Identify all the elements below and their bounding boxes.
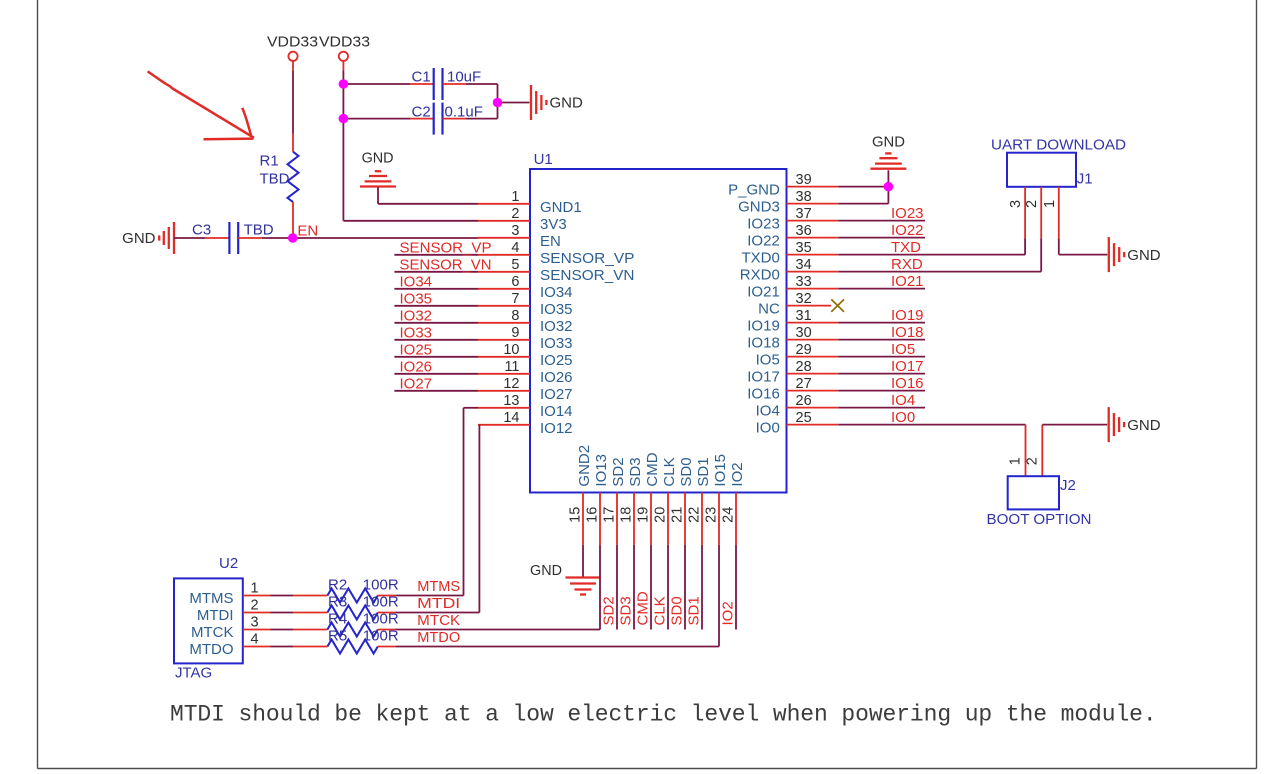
svg-text:CLK: CLK <box>661 457 678 486</box>
wire IO2 stub down <box>735 545 737 630</box>
wire C1-C2 right vertical <box>497 84 499 119</box>
svg-text:J1: J1 <box>1077 171 1093 188</box>
svg-text:GND3: GND3 <box>738 199 780 216</box>
ground GND (C1 C2) <box>531 85 546 120</box>
U1 pin 26 stub <box>787 407 839 409</box>
wire SD2 stub down <box>616 545 618 630</box>
svg-text:GND: GND <box>530 562 562 579</box>
ground symbol (pin1) <box>360 171 396 186</box>
wire IO22 row <box>838 237 925 239</box>
U1 pin 20 stub <box>667 493 669 545</box>
J1 pin 1 stub <box>1058 187 1060 239</box>
svg-text:23: 23 <box>704 507 720 523</box>
C3 pin right <box>238 237 262 239</box>
svg-text:IO23: IO23 <box>747 216 780 233</box>
svg-text:SD3: SD3 <box>627 457 644 486</box>
resistor R2 <box>327 589 377 603</box>
connector J1 body <box>1007 153 1076 187</box>
wire SD0 stub down <box>684 545 686 630</box>
U1 pin 31 stub <box>787 322 839 324</box>
wire IO16 row <box>838 390 925 392</box>
svg-text:SD1: SD1 <box>695 457 712 486</box>
wire C3 to EN junction <box>262 237 293 239</box>
svg-text:IO0: IO0 <box>891 409 915 426</box>
svg-text:17: 17 <box>602 507 618 523</box>
wire EN row <box>293 237 478 239</box>
ground symbol (P_GND) <box>870 153 906 168</box>
svg-text:IO22: IO22 <box>891 222 924 239</box>
U2 pin 2 stub <box>243 612 271 614</box>
svg-text:25: 25 <box>796 410 812 426</box>
svg-text:35: 35 <box>796 240 812 256</box>
wire SENSOR_VP row <box>394 254 478 256</box>
U1 pin 17 stub <box>616 493 618 545</box>
svg-text:EN: EN <box>540 233 561 250</box>
R1 pin top <box>292 134 294 152</box>
svg-text:SENSOR_VP: SENSOR_VP <box>400 239 492 256</box>
U2 pin 3 stub <box>243 629 271 631</box>
wire GND1 row <box>378 203 478 205</box>
U1 pin 18 stub <box>633 493 635 545</box>
svg-text:22: 22 <box>687 507 703 523</box>
svg-text:10uF: 10uF <box>447 69 481 86</box>
svg-text:MTMS: MTMS <box>189 590 233 607</box>
svg-text:3V3: 3V3 <box>540 216 567 233</box>
U2 pin 4 stub <box>243 646 271 648</box>
wire TXD row <box>838 254 1025 256</box>
svg-text:IO18: IO18 <box>891 324 924 341</box>
svg-text:IO18: IO18 <box>747 335 780 352</box>
wire U2 pin 4 to resistor <box>271 646 294 648</box>
svg-text:IO5: IO5 <box>756 352 780 369</box>
J1 pin 3 stub <box>1024 187 1026 239</box>
svg-text:TBD: TBD <box>244 222 274 239</box>
svg-text:SD1: SD1 <box>686 596 703 625</box>
svg-text:SD3: SD3 <box>618 596 635 625</box>
svg-text:IO4: IO4 <box>891 392 915 409</box>
wire IO5 row <box>838 356 925 358</box>
svg-text:IO26: IO26 <box>400 358 433 375</box>
wire P_GND row <box>838 186 888 188</box>
wire IO32 row <box>394 322 478 324</box>
svg-text:SENSOR_VP: SENSOR_VP <box>540 250 635 267</box>
svg-text:MTDO: MTDO <box>417 629 460 646</box>
wire GND2 to ground <box>582 545 584 577</box>
capacitor C2 <box>434 103 443 135</box>
svg-text:C1: C1 <box>412 69 431 86</box>
wire IO0 row <box>838 424 1025 426</box>
wire J1 pin3 to TXD <box>1024 239 1026 255</box>
svg-text:MTDI should be kept at a low e: MTDI should be kept at a low electric le… <box>170 702 1157 728</box>
U1 pin 38 stub <box>787 203 839 205</box>
svg-text:IO27: IO27 <box>400 375 433 392</box>
IC U1 body <box>530 169 787 493</box>
svg-text:R1: R1 <box>260 153 279 170</box>
svg-text:12: 12 <box>503 376 519 392</box>
svg-text:U2: U2 <box>219 555 238 572</box>
svg-text:1: 1 <box>251 581 259 597</box>
R2 pin left <box>293 595 327 597</box>
svg-text:3: 3 <box>1008 200 1024 208</box>
wire J1 pin1 down <box>1058 239 1060 255</box>
svg-text:MTCK: MTCK <box>417 612 460 629</box>
svg-text:SD0: SD0 <box>678 457 695 486</box>
U1 pin 36 stub <box>787 237 839 239</box>
wire CMD stub down <box>650 545 652 630</box>
svg-text:IO16: IO16 <box>891 375 924 392</box>
R4 pin right <box>378 629 396 631</box>
wire J1 pin1 to GND <box>1059 254 1108 256</box>
svg-text:NC: NC <box>758 301 780 318</box>
wire IO35 row <box>394 305 478 307</box>
svg-text:VDD33: VDD33 <box>267 34 318 51</box>
svg-text:30: 30 <box>796 325 812 341</box>
svg-text:R3: R3 <box>328 594 347 611</box>
U1 pin 22 stub <box>701 493 703 545</box>
svg-text:28: 28 <box>796 359 812 375</box>
svg-text:IO17: IO17 <box>747 369 780 386</box>
svg-text:IO33: IO33 <box>540 335 573 352</box>
svg-text:MTMS: MTMS <box>417 578 460 595</box>
svg-text:IO34: IO34 <box>540 284 573 301</box>
ground symbol (pin15) <box>566 578 601 595</box>
svg-text:IO5: IO5 <box>891 341 915 358</box>
U1 pin 9 stub <box>478 339 530 341</box>
svg-text:IO33: IO33 <box>400 324 433 341</box>
wire RXD row <box>838 271 1041 273</box>
svg-text:UART DOWNLOAD: UART DOWNLOAD <box>991 137 1126 154</box>
no-connect cross pin 32 <box>831 299 844 311</box>
svg-text:GND2: GND2 <box>576 445 593 487</box>
svg-text:MTDI: MTDI <box>417 595 460 612</box>
svg-text:19: 19 <box>636 507 652 523</box>
U1 pin 19 stub <box>650 493 652 545</box>
connector U2 body <box>174 578 243 663</box>
svg-text:GND1: GND1 <box>540 199 582 216</box>
wire IO13 down <box>599 545 601 630</box>
U1 pin 15 stub <box>582 493 584 545</box>
U1 pin 16 stub <box>599 493 601 545</box>
junction C2 <box>339 114 349 124</box>
C3 pin left <box>205 237 229 239</box>
R3 pin right <box>378 612 396 614</box>
svg-text:IO25: IO25 <box>400 341 433 358</box>
junction P_GND <box>884 182 894 192</box>
wire IO15 down <box>718 545 720 647</box>
svg-text:EN: EN <box>297 223 318 240</box>
svg-text:21: 21 <box>670 507 686 523</box>
wire to C2 <box>344 118 410 120</box>
svg-text:C2: C2 <box>412 104 431 121</box>
wire IO34 row <box>394 288 478 290</box>
wire J1 pin2 to RXD <box>1040 239 1042 272</box>
svg-text:8: 8 <box>511 308 519 324</box>
wire SD3 stub down <box>633 545 635 630</box>
junction EN <box>288 233 298 243</box>
svg-text:GND: GND <box>550 95 584 112</box>
wire IO33 row <box>394 339 478 341</box>
svg-text:10: 10 <box>503 342 519 358</box>
svg-text:SENSOR_VN: SENSOR_VN <box>400 256 492 273</box>
wire MTCK row to IO13 <box>396 629 600 631</box>
svg-text:TXD: TXD <box>891 239 921 256</box>
svg-text:1: 1 <box>1042 200 1058 208</box>
U1 pin 1 stub <box>478 203 530 205</box>
U1 pin 24 stub <box>735 493 737 545</box>
svg-text:GND: GND <box>1127 247 1161 264</box>
svg-text:16: 16 <box>585 507 601 523</box>
wire IO23 row <box>838 220 925 222</box>
svg-text:26: 26 <box>796 393 812 409</box>
svg-text:BOOT OPTION: BOOT OPTION <box>987 511 1092 528</box>
svg-text:VDD33: VDD33 <box>319 34 370 51</box>
svg-text:IO12: IO12 <box>540 420 573 437</box>
U1 pin 33 stub <box>787 288 839 290</box>
wire J2 pin2 to GND <box>1042 424 1107 426</box>
wire IO26 row <box>394 373 478 375</box>
wire C2 to corner <box>466 118 498 120</box>
R2 pin right <box>378 595 396 597</box>
svg-text:IO0: IO0 <box>756 420 780 437</box>
U1 pin 30 stub <box>787 339 839 341</box>
wire VDD33 to R1 <box>292 70 294 133</box>
svg-text:24: 24 <box>721 507 737 523</box>
svg-text:MTDI: MTDI <box>197 607 234 624</box>
svg-text:29: 29 <box>796 342 812 358</box>
wire MTDI vertical <box>478 425 480 613</box>
wire 3V3 horizontal <box>343 220 478 222</box>
svg-text:5: 5 <box>511 257 519 273</box>
U1 pin 11 stub <box>478 373 530 375</box>
wire C1 to corner <box>466 83 498 85</box>
annotation arrow <box>148 71 254 139</box>
svg-text:4: 4 <box>251 632 259 648</box>
svg-text:IO17: IO17 <box>891 358 924 375</box>
svg-text:20: 20 <box>653 507 669 523</box>
C2 pin right <box>443 118 467 120</box>
U1 pin 23 stub <box>718 493 720 545</box>
svg-text:14: 14 <box>503 410 519 426</box>
wire VDD33 to 3V3 row <box>342 70 344 221</box>
svg-text:CMD: CMD <box>644 452 661 486</box>
U1 pin 12 stub <box>478 390 530 392</box>
wire U2 pin 2 to resistor <box>271 612 294 614</box>
svg-text:100R: 100R <box>363 577 399 594</box>
wire GND down to P_GND <box>887 170 889 186</box>
U1 pin 27 stub <box>787 390 839 392</box>
wire MTDO row to IO15 <box>396 646 719 648</box>
svg-text:IO16: IO16 <box>747 386 780 403</box>
svg-text:C3: C3 <box>192 222 211 239</box>
svg-text:CMD: CMD <box>635 591 652 625</box>
resistor R3 <box>327 606 377 620</box>
U1 pin 8 stub <box>478 322 530 324</box>
capacitor C1 <box>434 68 443 100</box>
svg-text:GND: GND <box>872 134 905 151</box>
svg-text:IO27: IO27 <box>540 386 573 403</box>
wire MTMS row <box>396 595 464 597</box>
svg-text:IO35: IO35 <box>400 290 433 307</box>
wire GND down <box>377 187 379 204</box>
junction C1 <box>339 79 349 89</box>
ground GND (J2) <box>1109 407 1124 442</box>
U1 pin 37 stub <box>787 220 839 222</box>
svg-text:GND: GND <box>122 230 156 247</box>
wire U2 pin 3 to resistor <box>271 629 294 631</box>
svg-text:1: 1 <box>511 189 519 205</box>
svg-text:15: 15 <box>568 507 584 523</box>
U1 pin 6 stub <box>478 288 530 290</box>
svg-text:38: 38 <box>796 189 812 205</box>
svg-text:IO14: IO14 <box>540 403 573 420</box>
U1 pin 3 stub <box>478 237 530 239</box>
ground GND (C3) <box>159 222 174 254</box>
svg-text:IO19: IO19 <box>891 307 924 324</box>
R1 pin bottom <box>292 202 294 238</box>
svg-text:6: 6 <box>511 274 519 290</box>
wire MTMS vertical <box>463 408 465 596</box>
svg-text:2: 2 <box>1024 457 1040 465</box>
U1 pin 35 stub <box>787 254 839 256</box>
svg-text:37: 37 <box>796 206 812 222</box>
svg-text:SD2: SD2 <box>610 457 627 486</box>
wire GND to C3 <box>174 237 205 239</box>
U1 pin 2 stub <box>478 220 530 222</box>
wire to C1 <box>344 83 410 85</box>
wire U2 pin 1 to resistor <box>271 595 294 597</box>
wire MTDI row <box>396 612 480 614</box>
svg-text:IO13: IO13 <box>593 454 610 487</box>
svg-text:MTCK: MTCK <box>191 624 234 641</box>
wire IO18 row <box>838 339 925 341</box>
capacitor C3 <box>229 222 238 254</box>
wire GND3 row <box>838 203 888 205</box>
svg-text:IO4: IO4 <box>756 403 780 420</box>
svg-text:P_GND: P_GND <box>728 182 780 199</box>
wire IO17 row <box>838 373 925 375</box>
svg-text:IO22: IO22 <box>747 233 780 250</box>
U1 pin 25 stub <box>787 424 839 426</box>
svg-text:IO21: IO21 <box>747 284 780 301</box>
svg-text:3: 3 <box>251 615 259 631</box>
J2 pin 2 stub <box>1041 425 1043 477</box>
svg-text:SD0: SD0 <box>669 596 686 625</box>
wire to GND <box>498 102 530 104</box>
svg-text:3: 3 <box>511 223 519 239</box>
svg-text:2: 2 <box>1024 200 1040 208</box>
U1 pin 4 stub <box>478 254 530 256</box>
svg-text:IO21: IO21 <box>891 273 924 290</box>
U1 pin 10 stub <box>478 356 530 358</box>
U1 pin 29 stub <box>787 356 839 358</box>
svg-text:36: 36 <box>796 223 812 239</box>
U1 pin 5 stub <box>478 271 530 273</box>
wire SENSOR_VN row <box>394 271 478 273</box>
R4 pin left <box>293 629 327 631</box>
junction GND <box>493 98 503 108</box>
svg-text:IO26: IO26 <box>540 369 573 386</box>
svg-text:JTAG: JTAG <box>175 665 212 682</box>
R5 pin left <box>293 646 327 648</box>
svg-text:IO23: IO23 <box>891 205 924 222</box>
svg-text:7: 7 <box>511 291 519 307</box>
svg-text:IO32: IO32 <box>540 318 573 335</box>
svg-text:1: 1 <box>1008 457 1024 465</box>
svg-text:J2: J2 <box>1060 477 1076 494</box>
svg-text:18: 18 <box>619 507 635 523</box>
wire CLK stub down <box>667 545 669 630</box>
C1 pin left <box>410 83 434 85</box>
svg-text:IO19: IO19 <box>747 318 780 335</box>
C2 pin left <box>410 118 434 120</box>
svg-text:100R: 100R <box>363 628 399 645</box>
svg-text:39: 39 <box>796 172 812 188</box>
power symbol VDD33 circle 2 <box>339 52 348 61</box>
wire GND3 to P_GND <box>887 187 889 204</box>
U1 pin 21 stub <box>684 493 686 545</box>
wire SD1 stub down <box>701 545 703 630</box>
R3 pin left <box>293 612 327 614</box>
svg-text:TBD: TBD <box>260 171 290 188</box>
R5 pin right <box>378 646 396 648</box>
U1 pin 13 stub <box>478 407 530 409</box>
svg-text:GND: GND <box>1127 417 1161 434</box>
svg-text:IO2: IO2 <box>729 462 746 486</box>
svg-text:IO2: IO2 <box>720 601 737 625</box>
svg-text:RXD: RXD <box>891 256 923 273</box>
svg-text:IO35: IO35 <box>540 301 573 318</box>
svg-text:TXD0: TXD0 <box>741 250 779 267</box>
svg-text:R4: R4 <box>328 611 347 628</box>
svg-text:CLK: CLK <box>652 596 669 625</box>
svg-text:4: 4 <box>511 240 519 256</box>
wire IO14 row <box>464 407 479 409</box>
svg-text:100R: 100R <box>363 594 399 611</box>
J2 pin 1 stub <box>1025 425 1027 477</box>
svg-text:9: 9 <box>511 325 519 341</box>
svg-text:MTDO: MTDO <box>189 641 233 658</box>
connector J2 body <box>1008 476 1059 509</box>
svg-text:32: 32 <box>796 291 812 307</box>
svg-text:33: 33 <box>796 274 812 290</box>
wire IO19 row <box>838 322 925 324</box>
J1 pin 2 stub <box>1040 187 1042 239</box>
U1 pin 32 stub (NC) <box>787 305 832 307</box>
svg-text:100R: 100R <box>363 611 399 628</box>
svg-text:RXD0: RXD0 <box>740 267 780 284</box>
U2 pin 1 stub <box>243 595 271 597</box>
svg-text:2: 2 <box>511 206 519 222</box>
resistor R5 <box>327 640 377 654</box>
svg-text:11: 11 <box>504 359 519 375</box>
svg-text:R2: R2 <box>328 577 347 594</box>
svg-text:IO25: IO25 <box>540 352 573 369</box>
U1 pin 34 stub <box>787 271 839 273</box>
svg-text:SENSOR_VN: SENSOR_VN <box>540 267 635 284</box>
svg-text:27: 27 <box>796 376 812 392</box>
U1 pin 7 stub <box>478 305 530 307</box>
resistor R4 <box>327 623 377 637</box>
wire IO4 row <box>838 407 925 409</box>
resistor R1 <box>288 152 299 202</box>
svg-text:13: 13 <box>503 393 519 409</box>
svg-text:IO34: IO34 <box>400 273 433 290</box>
wire IO25 row <box>394 356 478 358</box>
svg-text:31: 31 <box>796 308 812 324</box>
U1 pin 39 stub <box>787 186 839 188</box>
U1 pin 14 stub <box>478 424 530 426</box>
ground GND (J1) <box>1109 237 1124 272</box>
